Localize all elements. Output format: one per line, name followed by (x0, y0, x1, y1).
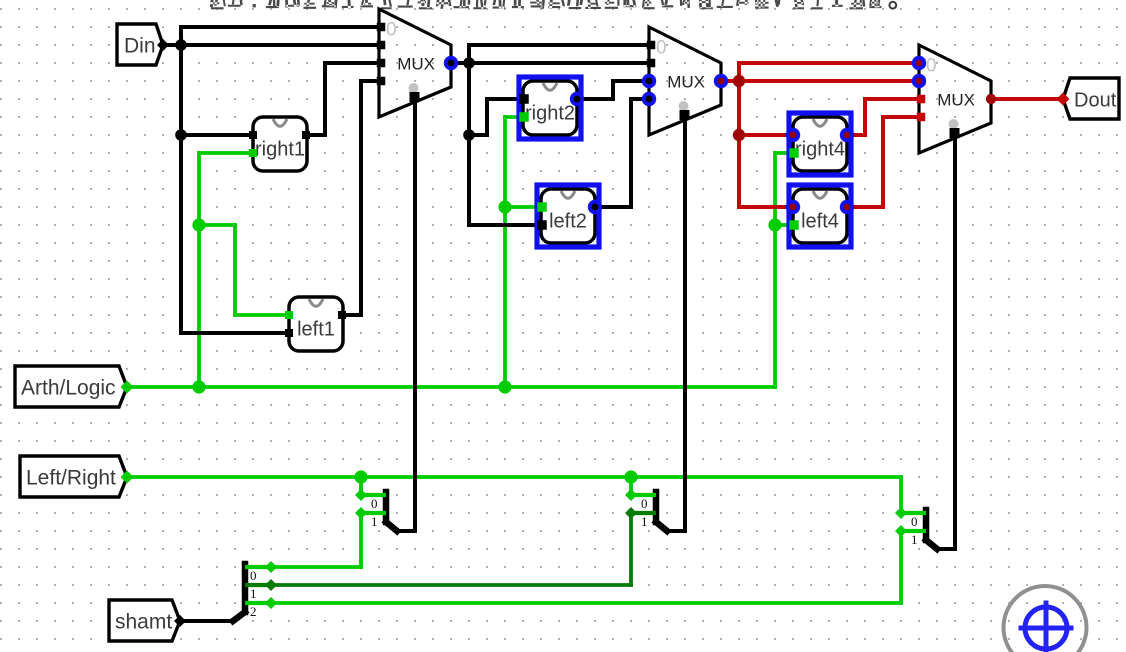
svg-text:Arth/Logic: Arth/Logic (21, 377, 116, 400)
svg-text:0: 0 (911, 514, 918, 529)
svg-text:left2: left2 (549, 211, 587, 233)
svg-text:0: 0 (641, 496, 648, 511)
svg-text:MUX: MUX (937, 91, 975, 110)
svg-text:2: 2 (250, 604, 257, 619)
svg-text:MUX: MUX (397, 55, 435, 74)
svg-text:0: 0 (250, 568, 257, 583)
svg-text:0: 0 (656, 38, 667, 59)
svg-text:right1: right1 (255, 139, 305, 161)
svg-text:1: 1 (641, 514, 648, 529)
svg-text:1: 1 (250, 586, 257, 601)
svg-text:right4: right4 (795, 139, 845, 161)
svg-text:1: 1 (371, 514, 378, 529)
svg-text:MUX: MUX (667, 73, 705, 92)
svg-text:Dout: Dout (1074, 90, 1117, 112)
svg-text:shamt: shamt (115, 611, 172, 634)
svg-text:left1: left1 (297, 319, 335, 341)
svg-text:left4: left4 (801, 211, 839, 233)
svg-text:Din: Din (124, 35, 156, 58)
svg-text:0: 0 (371, 496, 378, 511)
svg-text:Left/Right: Left/Right (26, 467, 116, 490)
svg-text:right2: right2 (525, 103, 575, 125)
svg-text:0: 0 (386, 20, 397, 41)
svg-text:0: 0 (926, 56, 937, 77)
svg-text:1: 1 (911, 532, 918, 547)
